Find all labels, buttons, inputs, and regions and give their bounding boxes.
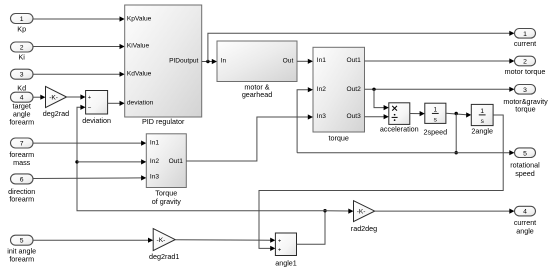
wire port4 to deg2rad bbox=[33, 95, 46, 100]
svg-text:forearm: forearm bbox=[9, 255, 34, 264]
sum block angle1 bbox=[275, 233, 297, 268]
svg-text:gearhead: gearhead bbox=[242, 90, 272, 99]
input port 7 forearm mass bbox=[9, 138, 34, 167]
svg-text:deviation: deviation bbox=[127, 100, 154, 107]
svg-text:2: 2 bbox=[523, 59, 527, 66]
wire angle node to rad2deg bbox=[325, 209, 354, 214]
svg-text:Out3: Out3 bbox=[347, 113, 362, 120]
wire Torque of gravity Out1 to torque In3 bbox=[186, 114, 313, 161]
wire motor Out to torque In1 bbox=[297, 59, 313, 64]
output port 3 motor&gravity torque bbox=[503, 85, 548, 114]
wire Out2 branch to acceleration input 1 bbox=[374, 89, 389, 110]
output port 2 motor torque bbox=[505, 56, 546, 76]
svg-text:-K-: -K- bbox=[49, 94, 58, 101]
subsystem torque bbox=[313, 47, 365, 142]
svg-text:In2: In2 bbox=[317, 86, 326, 93]
svg-text:KiValue: KiValue bbox=[127, 43, 150, 50]
wire deg2rad1 to angle1 input 1 bbox=[175, 238, 275, 243]
svg-text:torque: torque bbox=[329, 134, 349, 143]
svg-text:mass: mass bbox=[13, 158, 31, 167]
svg-text:In3: In3 bbox=[317, 113, 326, 120]
input port 5 init angle forearm bbox=[7, 235, 36, 264]
wire speed line to out port 5 rotational speed bbox=[297, 150, 514, 155]
svg-text:deg2rad: deg2rad bbox=[43, 109, 69, 118]
wire deviation to PID deviation bbox=[108, 101, 125, 106]
wire Ki to PID KiValue bbox=[33, 44, 125, 49]
gain rad2deg bbox=[351, 201, 377, 234]
gain deg2rad bbox=[43, 86, 69, 118]
svg-text:PIDoutput: PIDoutput bbox=[169, 58, 198, 65]
svg-text:2: 2 bbox=[20, 45, 24, 52]
svg-text:Out1: Out1 bbox=[347, 57, 362, 64]
wire torque Out3 to acceleration input 2 bbox=[365, 114, 389, 119]
input port 6 direction forearm bbox=[8, 174, 35, 204]
wire Kp to PID KpValue bbox=[33, 16, 125, 21]
input port 4 target angle forearm bbox=[9, 92, 34, 126]
svg-text:3: 3 bbox=[523, 87, 527, 94]
svg-text:Kp: Kp bbox=[17, 25, 26, 34]
subsystem motor & gearhead bbox=[217, 41, 297, 99]
junction node 2speed output bbox=[455, 112, 458, 115]
junction node PID output bbox=[206, 60, 209, 63]
svg-text:acceleration: acceleration bbox=[380, 125, 419, 134]
svg-text:PID regulator: PID regulator bbox=[142, 117, 185, 126]
svg-text:KpValue: KpValue bbox=[127, 15, 152, 22]
junction node speed line bbox=[455, 151, 458, 154]
wire speed feedback up to torque In2 bbox=[297, 87, 313, 153]
input port 3 Kd bbox=[11, 69, 34, 92]
svg-text:5: 5 bbox=[20, 238, 24, 245]
wire 2angle output angle feedback loop to angle1 input 2 bbox=[259, 115, 503, 251]
svg-text:Kd: Kd bbox=[17, 84, 26, 93]
junction node torque Out2 bbox=[372, 88, 375, 91]
subsystem Torque of gravity bbox=[146, 134, 186, 206]
svg-text:-K-: -K- bbox=[357, 209, 366, 216]
svg-text:angle1: angle1 bbox=[275, 259, 297, 268]
svg-text:3: 3 bbox=[20, 72, 24, 79]
svg-text:In3: In3 bbox=[150, 174, 159, 181]
integrator 2speed bbox=[424, 103, 448, 136]
svg-text:1: 1 bbox=[20, 16, 24, 23]
svg-text:In1: In1 bbox=[317, 57, 326, 64]
svg-text:4: 4 bbox=[523, 209, 527, 216]
output port 5 rotational speed bbox=[510, 148, 540, 178]
svg-text:-K-: -K- bbox=[157, 237, 166, 244]
svg-text:torque: torque bbox=[515, 105, 535, 114]
svg-text:deg2rad1: deg2rad1 bbox=[149, 252, 179, 261]
wire angle1 output up to angle node bbox=[297, 211, 326, 245]
sum block deviation bbox=[82, 91, 111, 125]
input port 2 Ki bbox=[11, 42, 34, 62]
svg-text:forearm: forearm bbox=[9, 118, 34, 127]
svg-text:rad2deg: rad2deg bbox=[351, 224, 377, 233]
svg-text:5: 5 bbox=[523, 150, 527, 157]
svg-text:6: 6 bbox=[20, 176, 24, 183]
wire torque Out2 to out port 3 motor&gravity torque bbox=[365, 87, 515, 92]
output port 4 current angle bbox=[514, 206, 536, 235]
svg-text:Out: Out bbox=[283, 58, 294, 65]
svg-text:7: 7 bbox=[20, 141, 24, 148]
svg-text:deviation: deviation bbox=[82, 116, 111, 125]
wire port5 to deg2rad1 bbox=[33, 238, 153, 243]
svg-text:motor torque: motor torque bbox=[505, 67, 546, 76]
gain deg2rad1 bbox=[149, 229, 179, 261]
wire 2speed to 2angle bbox=[446, 112, 471, 117]
svg-text:1: 1 bbox=[480, 108, 484, 115]
svg-text:In1: In1 bbox=[150, 139, 159, 146]
svg-text:In: In bbox=[221, 58, 227, 65]
wire 2speed branch down to speed line bbox=[455, 114, 457, 153]
wire PIDoutput to motor gearhead In bbox=[202, 59, 217, 64]
wire acceleration to 2speed bbox=[410, 111, 425, 116]
wire Kd to PID KdValue bbox=[33, 72, 125, 77]
output port 1 current bbox=[514, 29, 536, 49]
svg-text:angle: angle bbox=[516, 227, 534, 236]
svg-text:speed: speed bbox=[515, 169, 535, 178]
divide block acceleration bbox=[380, 103, 419, 134]
wire port7 to Torque of gravity In1 bbox=[33, 141, 146, 146]
wire deg2rad to deviation plus bbox=[67, 94, 86, 99]
junction node angle to gravity In2 bbox=[75, 160, 78, 163]
svg-text:forearm: forearm bbox=[9, 195, 34, 204]
svg-text:2speed: 2speed bbox=[424, 127, 448, 136]
svg-text:of gravity: of gravity bbox=[152, 197, 182, 206]
wire port6 to Torque of gravity In3 bbox=[33, 175, 146, 180]
wire PID output branch to out port 1 current bbox=[208, 31, 515, 62]
junction node angle bbox=[323, 209, 326, 212]
svg-text:Ki: Ki bbox=[18, 53, 25, 62]
svg-text:2angle: 2angle bbox=[471, 127, 493, 136]
wire angle feedback left to deviation minus bbox=[77, 105, 325, 211]
svg-text:−: − bbox=[88, 104, 92, 111]
input port 1 Kp bbox=[11, 14, 34, 34]
subsystem PID regulator bbox=[125, 5, 202, 126]
svg-text:KdValue: KdValue bbox=[127, 70, 152, 77]
wire angle branch to Torque of gravity In2 bbox=[77, 159, 146, 164]
svg-text:In2: In2 bbox=[150, 158, 159, 165]
svg-text:1: 1 bbox=[433, 107, 437, 114]
svg-text:1: 1 bbox=[523, 31, 527, 38]
svg-text:Out2: Out2 bbox=[347, 86, 362, 93]
svg-text:+: + bbox=[88, 95, 92, 101]
wire torque Out1 to out port 2 motor torque bbox=[365, 58, 515, 63]
integrator 2angle bbox=[471, 104, 493, 135]
svg-text:Out1: Out1 bbox=[169, 158, 184, 165]
svg-text:current: current bbox=[514, 39, 536, 48]
wire rad2deg to out port 4 current angle bbox=[375, 209, 515, 214]
